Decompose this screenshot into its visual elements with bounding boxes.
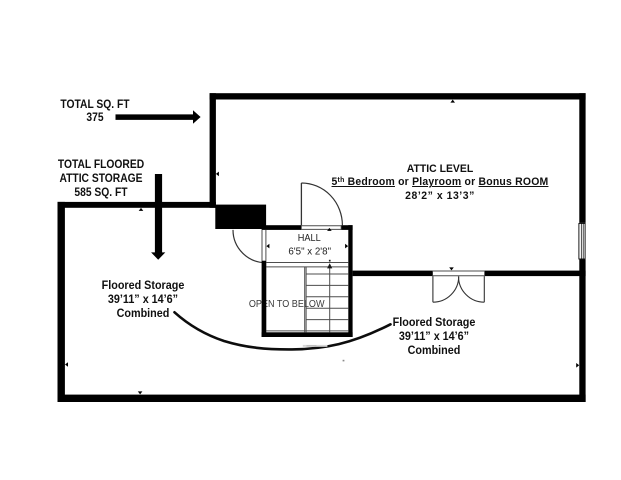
svg-text:OPEN TO BELOW: OPEN TO BELOW (249, 299, 325, 310)
wall hall top left segment (262, 225, 301, 230)
label floored storage left (48, 278, 238, 320)
wall bottom (58, 395, 586, 402)
wall right upper (579, 93, 585, 223)
chimney black box (215, 205, 266, 229)
tick hall left wall (266, 244, 269, 249)
label attic level (290, 163, 590, 203)
label total sq ft (0, 98, 190, 124)
wall left (storage) (58, 202, 65, 402)
gray dot (343, 360, 345, 362)
door D2 opening jamb lines (hall to storage) (262, 230, 266, 261)
wall right lower (579, 259, 585, 402)
stairwell open well edge (305, 267, 306, 332)
tick bottom wall (138, 391, 143, 394)
wall storage top (58, 202, 216, 208)
label floored storage right (339, 316, 529, 357)
tick hall right wall (345, 244, 348, 249)
stair top landing lines (266, 263, 348, 267)
tick top wall (450, 100, 455, 103)
stair treads (306, 274, 348, 320)
svg-text:6'5" x 2'8": 6'5" x 2'8" (288, 246, 331, 257)
wall separating left segment (353, 271, 433, 277)
double door DD header lines (432, 271, 485, 277)
tick left wall (65, 362, 68, 367)
svg-text:HALL: HALL (298, 233, 321, 244)
wall hall right (348, 225, 352, 337)
door D1 leaf (300, 183, 302, 225)
freehand callout curve (175, 312, 391, 349)
door D1 swing arc (301, 183, 342, 225)
label total floored attic storage (6, 157, 196, 200)
wall top (attic room) (210, 93, 586, 99)
window W1 on right wall (578, 223, 586, 260)
wall hall left (262, 261, 267, 337)
door D2 swing arc (233, 230, 266, 263)
stair well bottom line (266, 330, 348, 332)
wall hall top right segment (342, 225, 353, 230)
double door DD right leaf (458, 276, 484, 302)
wall attic left (210, 93, 216, 208)
arrow attic storage (down pointing) (151, 174, 165, 260)
tick storage top wall (139, 208, 144, 211)
tick separating wall (449, 267, 454, 270)
tick attic left wall (216, 172, 219, 177)
tick hall door opening (327, 228, 332, 231)
double door DD left leaf (433, 276, 459, 302)
door D1 opening jamb lines (hall to attic room) (301, 225, 342, 230)
tick right wall (576, 363, 579, 368)
stair direction line with up arrow (327, 260, 332, 333)
wall separating right segment (485, 271, 586, 277)
wall hall bottom (262, 332, 353, 337)
watermark smudge (303, 345, 328, 347)
arrow total sq ft (right pointing) (116, 110, 201, 123)
